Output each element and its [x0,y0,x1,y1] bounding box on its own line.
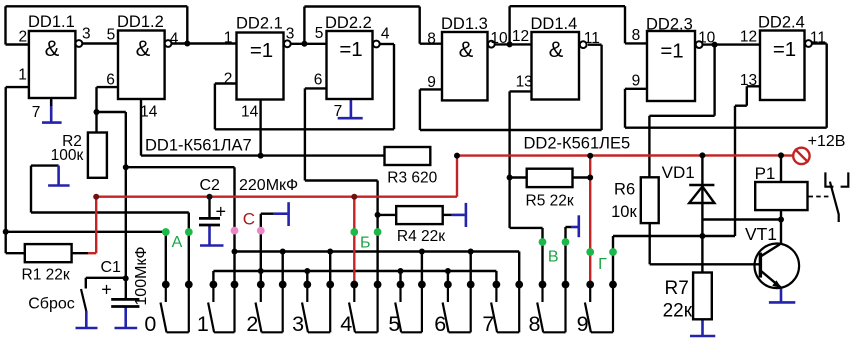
wire R5 left lead [510,176,527,178]
junction code line key4 [351,194,357,200]
switch key 1 [208,285,234,333]
wire bus C end drop key7 left [495,271,497,285]
wire relay coil bottom to VT1 collector [780,210,782,244]
wire key5 right drop [421,252,423,285]
wire R1 left lead [6,252,25,254]
svg-text:4: 4 [170,31,179,48]
relay P1 coil [755,182,807,210]
transistor VT1 [755,243,800,288]
junction rail R3 [454,153,460,159]
wire key0 left drop [165,232,167,285]
wire touch B lead [566,226,572,228]
svg-text:10: 10 [698,30,716,47]
resistor R2 100k body [88,133,107,178]
wire DD1.3 out to DD1.4 pin12 [495,43,532,45]
svg-text:А: А [172,234,183,251]
wire key6 left drop [447,271,449,285]
wire DD2.2 pin6 drop [304,88,306,180]
wire DD2.3 out loop run [649,115,714,117]
key 8 right contact dot [562,281,570,289]
svg-text:R3 620: R3 620 [387,170,437,187]
svg-text:9: 9 [632,73,641,90]
svg-text:13: 13 [740,72,757,89]
junction rail R5 drop [587,153,593,159]
svg-text:Р1: Р1 [755,164,776,183]
junction DD1.3 output node [507,41,513,47]
wire DD1.1 pin1 left drop to R1 node [4,87,6,232]
capacitor C2 plates [199,217,220,220]
svg-text:&: & [136,36,151,61]
svg-text:11: 11 [584,30,600,47]
svg-text:5: 5 [315,25,324,42]
svg-text:3: 3 [82,26,91,43]
wire key8 left drop [541,228,543,285]
node C dot 2 [257,227,265,235]
key 9 left contact dot [586,281,594,289]
wire DD1.2 pin6 stub [97,86,119,88]
red wire rail stub to terminal [781,154,793,157]
wire DD1.1 pin2 stub [6,43,29,45]
bubble DD2.2 output pin4 [373,41,380,48]
svg-text:7: 7 [482,312,494,336]
ground C2 bar [200,244,224,247]
gate DD2.4 body [760,31,805,101]
junction C1 reset [123,275,129,281]
svg-text:Б: Б [360,235,371,252]
switch key 4 [349,285,378,333]
wire ground drop left [30,166,32,213]
node B dot 1 [350,228,358,236]
svg-text:12: 12 [512,28,529,45]
reset switch Sbros lever [81,289,86,311]
wire ground branch near R2 [31,164,59,166]
switch key 9 [585,285,613,333]
wire DD1.2 pin6 to R2 top [95,87,97,132]
wire VD1 vertical to R7 [701,155,703,272]
junction VD1 bottom node [699,233,705,239]
svg-text:220МкФ: 220МкФ [239,177,298,194]
svg-text:DD1.1: DD1.1 [28,13,75,31]
junction DD2.1 output node [301,41,307,47]
red wire code line riser to rail [456,156,458,197]
wire DD1.4 out to DD1.3 pin9 run [420,129,602,131]
ground DD2.2 pin7 stem [350,99,353,118]
touch plate C lead [273,212,287,215]
wire bus C stage [213,270,496,272]
pin 7 stub DD1.1 [50,98,52,106]
node A dot 2 [185,228,193,236]
wire R4 left lead [378,214,397,216]
relay P1 contact [825,172,848,222]
wire R4 right lead [443,214,452,216]
wire key2 right drop [282,252,284,285]
svg-text:DD1.2: DD1.2 [117,13,164,31]
touch plate C bar [287,202,290,226]
key 4 right contact dot [374,281,382,289]
wire DD1.3 pin9 drop [419,89,421,130]
node G dot 1 [586,248,594,256]
wire key8 branch run [510,227,543,229]
svg-text:Г: Г [598,256,607,273]
wire R4 node drop to key4 right [376,181,378,285]
svg-text:2: 2 [246,312,258,336]
svg-text:7: 7 [32,104,41,121]
wire supply via R3 to pins14 [141,154,385,156]
switch key 5 [395,285,422,333]
bubble DD2.4 output pin11 [805,40,812,47]
switch key 0 [161,285,189,333]
svg-text:R5 22к: R5 22к [526,193,574,210]
resistor R1 22k body [25,244,72,262]
svg-text:2: 2 [224,71,233,88]
node B dot 2 [374,228,382,236]
red wire R1 right to R2 bottom riser [88,252,96,254]
junction relay coil bottom [778,217,784,223]
gate DD1.3 body [442,32,488,100]
wire DD1.3 pin9 stub [420,88,442,90]
svg-text:6: 6 [106,72,115,89]
key 6 left contact dot [444,281,452,289]
svg-text:В: В [548,249,559,266]
wire DD1.4 out drop [600,45,602,130]
svg-text:R1 22к: R1 22к [22,267,70,284]
junction bus A key3 [327,249,333,255]
junction bus A key2 [280,249,286,255]
resistor R5 22k body [527,169,573,187]
wire DD1.1 out to DD1.2 pin5 [82,42,118,44]
wire DD1.4 pin13 drop to R5 and key8 [508,91,510,228]
svg-text:7: 7 [334,103,343,120]
svg-text:14: 14 [241,103,259,120]
wire stage A branch run [126,166,235,168]
key 2 right contact dot [279,281,287,289]
ground R7 bar [690,335,715,338]
switch key 3 [302,285,330,333]
wire bus A end drop key7 right [518,252,520,285]
wire key3 left drop [306,271,308,285]
key 6 right contact dot [467,281,475,289]
ground C2 stem [208,225,211,246]
svg-text:+12В: +12В [808,133,846,150]
wire key9 right drop [612,236,614,285]
wire feedback DD1.2 out to DD1.1 pin2 top run [6,5,188,7]
red wire R2 bottom riser [95,197,97,254]
svg-text:R7: R7 [665,278,689,299]
svg-text:8: 8 [529,312,541,336]
svg-text:DD2-К561ЛЕ5: DD2-К561ЛЕ5 [524,135,631,153]
junction bus A key5 [419,249,425,255]
wire R1 node run to key0 left [6,231,166,233]
svg-text:1: 1 [224,30,233,47]
junction bus A key6 [468,249,474,255]
ground near R2 bar [48,184,70,187]
gate DD2.2 body [327,31,373,99]
switch key 2 [256,285,283,333]
wire DD2.1 pin14 drop [259,100,261,156]
svg-text:&: & [45,36,60,61]
wire feedback3 left riser [508,6,510,44]
svg-text:22к: 22к [663,301,693,322]
ground DD1.1 pin7 stem [50,100,53,123]
key 7 right contact dot [515,281,523,289]
terminal +12V circle [793,148,809,164]
svg-text:5: 5 [388,312,400,336]
svg-text:&: & [459,37,474,62]
junction supply pins14 [258,153,264,159]
svg-text:+: + [101,280,112,300]
wire feedback2 top run [304,5,419,7]
svg-text:VT1: VT1 [745,224,777,244]
red wire code line run [96,195,457,197]
svg-text:6: 6 [434,312,446,336]
node A dot 1 [162,228,170,236]
wire DD2.1 out to DD2.2 pin5 [291,43,327,45]
diode VD1 symbol [689,185,714,203]
wire to R6 top [648,116,650,178]
svg-text:DD2.4: DD2.4 [758,14,805,32]
junction DD1.2 output node [184,41,190,47]
wire key0 right drop [188,213,190,285]
wire C1 column drop [125,112,127,299]
svg-text:Сброс: Сброс [28,296,75,313]
wire bus A stage [235,250,520,252]
svg-text:=1: =1 [660,40,683,63]
svg-text:DD1.3: DD1.3 [441,15,488,33]
touch plate B bar [577,215,580,237]
wire DD2.4 out stub [813,42,827,44]
svg-text:13: 13 [516,74,533,91]
svg-text:2: 2 [18,29,27,46]
ground VT1 emitter bar [769,301,795,304]
wire DD2.2 out drop [393,44,395,129]
resistor R4 22k body [396,206,443,224]
svg-text:DD1-К561ЛА7: DD1-К561ЛА7 [145,137,252,155]
svg-text:С: С [243,210,255,229]
svg-text:&: & [549,37,564,62]
wire DD1.2 out to DD2.1 pin1 [171,42,236,44]
svg-text:5: 5 [107,27,116,44]
wire stage A column to key1 right [233,167,235,284]
svg-text:3: 3 [286,25,295,42]
key 3 right contact dot [326,281,334,289]
svg-text:100к: 100к [51,147,84,164]
node C dot 1 [231,227,239,235]
wire DD2.4 out to DD2.3 pin9 run [625,126,827,128]
key 0 left contact dot [162,281,170,289]
junction rail relay [778,152,784,158]
capacitor C1 plates [111,298,139,301]
wire DD2.3 pin9 drop [624,89,626,128]
wire DD1.3 pin8 stub [420,43,442,45]
svg-text:C1: C1 [100,259,121,276]
wire node R2top branch right [97,111,126,113]
key 7 left contact dot [493,281,501,289]
wire feedback2 right drop [419,7,421,44]
bubble DD1.4 output pin11 [580,41,587,48]
wire DD1.1 pin1 stub [6,86,29,88]
switch key 8 [537,285,565,333]
wire DD2.4 pin13 long drop [734,106,736,236]
red wire key4 left drop [353,197,355,285]
wire touch C drop to key2 left [260,214,262,285]
svg-text:VD1: VD1 [662,163,695,182]
gate DD1.1 body [29,31,76,98]
node G dot 2 [609,248,617,256]
wire relay coil top [780,155,782,182]
svg-text:0: 0 [144,312,156,336]
wire key3 right drop [329,252,331,285]
wire VD1 node run to key9 right [613,235,735,237]
svg-text:4: 4 [340,312,352,336]
wire C2 top lead [208,197,210,219]
junction rail VD1 [699,152,705,158]
touch plate B lead [571,226,578,229]
ground reset switch stem [85,311,88,328]
svg-text:3: 3 [292,312,304,336]
ground near R2 stem [57,166,60,186]
wire DD2.3 out to DD2.4 pin12 [703,43,760,45]
bubble DD1.1 output pin3 [76,40,83,47]
wire DD2.3 out loop drop [713,45,715,116]
wire key6 right drop [470,252,472,285]
wire VT1 base run [650,263,759,265]
touch plate R4 lead [452,214,465,217]
wire DD2.4 out drop [826,44,828,128]
ground VT1 emitter stem [780,288,783,302]
wire DD1.4 pin13 stub [510,90,532,92]
wire DD2.2 out feedback run [215,128,394,130]
wire R5 right lead [573,176,591,178]
svg-text:+: + [215,202,226,222]
svg-text:8: 8 [632,27,641,44]
wire key5 left drop [399,271,401,285]
wire DD2.2 pin6 stub [305,87,327,89]
key 2 left contact dot [257,281,265,289]
junction C1 column stage A [123,164,129,170]
gate DD2.1 body [237,33,284,100]
switch key 7 [491,285,519,333]
bubble DD2.3 output pin10 [696,41,703,48]
svg-text:С2: С2 [199,177,220,194]
wire R1 right lead [72,252,88,254]
red wire rail drop to R5 and key9 left [589,156,591,285]
touch plate R4 bar [465,203,468,227]
ground DD1.1 pin7 bar [42,121,62,124]
junction R5 right on red drop [587,175,593,181]
wire DD2.4 pin13 step down [746,86,748,105]
svg-text:9: 9 [577,312,589,336]
svg-text:14: 14 [140,104,158,121]
wire ground run to key0 [31,211,189,213]
wire DD2.1 pin2 drop [214,84,216,130]
node V dot 2 [562,238,570,246]
svg-text:=1: =1 [339,38,362,61]
key 5 left contact dot [397,281,405,289]
wire DD2.4 pin13 step left [735,104,747,106]
svg-text:11: 11 [810,30,826,47]
junction bus C key5 [398,268,404,274]
key 1 left contact dot [210,281,218,289]
gate DD2.3 body [647,31,695,101]
junction DD2.3 output node [712,42,718,48]
wire touch C lead [261,212,273,214]
red wire +12V rail [457,154,781,157]
svg-text:=1: =1 [773,38,796,61]
wire DD2.2 out stub [380,43,394,45]
wire DD1.4 out stub [588,44,602,46]
svg-text:4: 4 [381,25,390,42]
key 8 left contact dot [539,281,547,289]
bubble DD1.2 output pin4 [165,40,172,47]
wire feedback left drop [4,6,6,44]
ground C1 bar [115,327,138,330]
junction R1 left node [3,229,9,235]
wire feedback2 left riser [303,7,305,44]
junction bus A key1 [232,249,238,255]
key 1 right contact dot [231,281,239,289]
svg-text:10: 10 [490,30,508,47]
switch key 6 [443,285,471,333]
wire R1 left riser [4,232,6,253]
svg-text:12: 12 [740,29,757,46]
wire VD1 to relay coil bottom [702,218,781,220]
wire DD2.3 pin8 stub [625,42,647,44]
wire feedback right riser [186,6,188,43]
key 0 right contact dot [185,281,193,289]
svg-text:9: 9 [427,74,436,91]
junction R5 left [507,175,513,181]
wire pin6 net run to R4 [305,179,378,181]
key 5 right contact dot [418,281,426,289]
key 9 right contact dot [609,281,617,289]
key 4 left contact dot [350,281,358,289]
bubble DD1.3 output pin10 [488,41,495,48]
svg-text:=1: =1 [250,39,273,62]
resistor R6 10k body [641,177,659,223]
wire R6 bottom drop [649,223,651,264]
gate DD1.4 body [532,32,580,100]
svg-text:10к: 10к [611,203,637,221]
key 3 left contact dot [303,281,311,289]
svg-text:1: 1 [18,67,27,84]
svg-text:DD1.4: DD1.4 [531,15,578,33]
node V dot 1 [539,238,547,246]
resistor R3 620 body [385,147,431,165]
ground R7 stem [701,319,704,336]
wire feedback3 top run [510,5,625,7]
svg-text:8: 8 [427,31,436,48]
wire DD2.1 pin2 stub [215,82,237,84]
wire C1 to reset switch [86,277,126,279]
relay P1 actuation dashed link [809,196,832,198]
junction R4 left [375,212,381,218]
svg-text:6: 6 [314,72,323,89]
junction code line R2 bottom [93,194,99,200]
wire DD1.2 pin14 drop [140,99,142,156]
junction bus C key3 [304,268,310,274]
svg-text:R4 22к: R4 22к [397,228,445,245]
junction code line C2 [207,194,213,200]
junction R2 top branch [94,109,100,115]
svg-text:DD2.2: DD2.2 [325,14,372,32]
svg-text:DD2.1: DD2.1 [236,15,283,33]
wire touch B drop to key8 right [564,227,566,285]
svg-text:DD2.3: DD2.3 [646,16,693,34]
wire DD2.3 pin9 stub [625,88,647,90]
wire bus C left drop key1 left [212,271,214,285]
ground DD2.2 pin7 bar [338,117,363,120]
junction bus C key2 [258,268,264,274]
